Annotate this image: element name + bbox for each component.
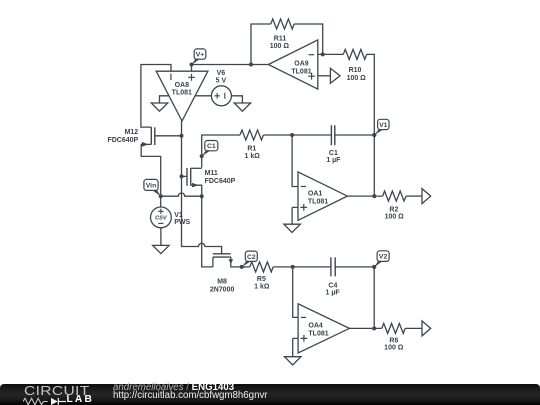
svg-text:M12: M12: [125, 129, 139, 136]
svg-text:TL081: TL081: [172, 90, 192, 97]
svg-text:R2: R2: [389, 207, 398, 214]
svg-text:R10: R10: [349, 67, 362, 74]
svg-text:CSV: CSV: [155, 216, 168, 222]
svg-text:V2: V2: [379, 254, 388, 261]
svg-text:V1: V1: [379, 122, 388, 129]
svg-text:FDC640P: FDC640P: [205, 178, 236, 185]
svg-text:100 Ω: 100 Ω: [347, 75, 367, 82]
svg-text:C1: C1: [207, 143, 216, 150]
svg-text:1 kΩ: 1 kΩ: [254, 284, 270, 291]
svg-text:100 Ω: 100 Ω: [384, 345, 404, 352]
svg-text:OA8: OA8: [175, 82, 190, 89]
svg-text:2N7000: 2N7000: [210, 287, 235, 294]
svg-text:FDC640P: FDC640P: [107, 137, 138, 144]
svg-text:R1: R1: [247, 146, 256, 153]
svg-text:TL081: TL081: [308, 198, 328, 205]
svg-text:C1: C1: [329, 150, 338, 157]
svg-text:1 µF: 1 µF: [326, 289, 341, 296]
svg-text:PWS: PWS: [174, 219, 190, 226]
svg-text:OA9: OA9: [294, 61, 309, 68]
svg-text:R5: R5: [257, 276, 266, 283]
svg-text:R11: R11: [274, 35, 287, 42]
svg-text:M8: M8: [217, 278, 227, 285]
svg-text:TL081: TL081: [308, 330, 328, 337]
svg-text:V6: V6: [217, 70, 226, 77]
svg-text:5 V: 5 V: [216, 77, 227, 84]
svg-text:1 kΩ: 1 kΩ: [245, 153, 261, 160]
svg-text:V+: V+: [196, 52, 205, 59]
svg-text:C2: C2: [247, 254, 256, 261]
svg-text:OA4: OA4: [308, 323, 323, 330]
svg-text:100 Ω: 100 Ω: [270, 43, 290, 50]
svg-text:V1: V1: [174, 212, 183, 219]
svg-text:R6: R6: [389, 337, 398, 344]
svg-text:OA1: OA1: [308, 190, 323, 197]
svg-text:100 Ω: 100 Ω: [385, 214, 405, 221]
svg-text:1 µF: 1 µF: [326, 157, 341, 164]
svg-text:M11: M11: [205, 170, 218, 177]
svg-text:Vin: Vin: [146, 182, 156, 189]
svg-text:TL081: TL081: [291, 68, 311, 75]
